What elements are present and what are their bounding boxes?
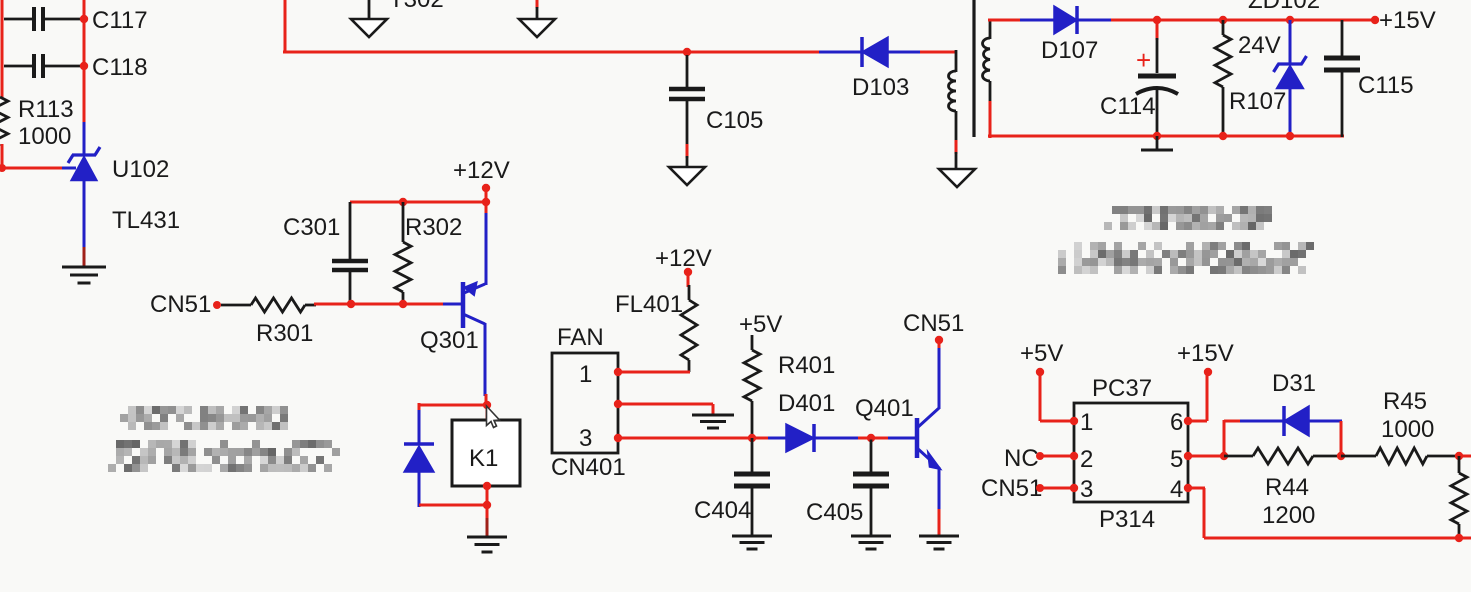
wire U102 anode down: [83, 180, 86, 266]
svg-text:24V: 24V: [1238, 32, 1281, 59]
wire secondary bottom rail: [988, 135, 1344, 138]
label CN51 left: [150, 291, 211, 318]
capacitor C117: [4, 7, 82, 31]
ground C405 earth: [851, 536, 891, 549]
label C114: [1100, 93, 1156, 120]
node D401 left junction: [748, 434, 756, 442]
svg-text:C114: C114: [1100, 93, 1156, 120]
node C114 top: [1153, 16, 1161, 24]
wire C117-C118 vertical: [83, 0, 86, 155]
label C115: [1358, 72, 1414, 99]
node fan pin1: [614, 368, 622, 376]
watermark left line2: [108, 440, 340, 472]
resistor R302: [395, 202, 411, 304]
svg-text:NC: NC: [1004, 445, 1039, 472]
svg-text:ZD102: ZD102: [1248, 0, 1320, 14]
label +12V fan: [655, 245, 712, 272]
label T302: [389, 0, 444, 13]
transistor Q401 NPN: [917, 408, 940, 469]
svg-text:C118: C118: [92, 54, 148, 81]
transformer core: [972, 0, 975, 137]
svg-text:R45: R45: [1383, 388, 1427, 415]
label +12V: [453, 157, 510, 184]
op-amp U102 TL431 shunt regulator: [68, 147, 100, 181]
label TL431: [112, 207, 180, 234]
ground transformer chassis: [939, 169, 975, 187]
label R44 value: [1262, 502, 1315, 529]
label K1: [469, 445, 498, 472]
transformer left winding: [949, 71, 956, 111]
label D107: [1041, 37, 1098, 64]
node +12V tee: [482, 198, 490, 206]
node R107 bottom: [1219, 132, 1227, 140]
diode D401: [752, 424, 872, 452]
wire K1 diode bottom: [419, 504, 487, 507]
svg-text:CN51: CN51: [150, 291, 211, 318]
svg-text:+15V: +15V: [1379, 7, 1436, 34]
node fan pin3: [614, 434, 622, 442]
capacitor C405: [853, 438, 889, 536]
wire K1 ground lead: [486, 518, 489, 537]
node R107 top: [1219, 16, 1227, 24]
label R45 value: [1381, 416, 1434, 443]
ground fan earth: [692, 415, 734, 428]
wire fan pin3: [618, 437, 752, 440]
svg-text:CN401: CN401: [551, 454, 626, 481]
node C105 junction: [683, 48, 691, 56]
wire fan pin2: [618, 404, 713, 415]
node bottom rail junction: [1455, 534, 1463, 542]
watermark right line2: [1058, 242, 1314, 274]
resistor R45: [1341, 448, 1457, 464]
wire K1 diode top: [419, 403, 487, 412]
resistor R44: [1224, 448, 1341, 464]
wire Q301 emitter up: [485, 213, 488, 285]
svg-text:+5V: +5V: [739, 311, 782, 338]
capacitor C115: [1324, 20, 1360, 137]
wire CN51 to pin3: [1040, 487, 1074, 490]
svg-text:P314: P314: [1099, 506, 1155, 533]
node pc37 pin3: [1070, 484, 1078, 492]
svg-text:1: 1: [1080, 409, 1093, 436]
node K1 bottom junction: [483, 501, 491, 509]
label R45: [1383, 388, 1427, 415]
wire Q401 collector: [938, 340, 941, 409]
wire D31 left riser: [1224, 420, 1242, 456]
wire left edge vertical: [1, 0, 4, 168]
node NC terminal: [1036, 452, 1044, 460]
wire top rail right: [1111, 19, 1375, 22]
transformer right winding lead bottom: [989, 81, 992, 138]
label Q401: [855, 395, 914, 422]
label U102: [112, 156, 169, 183]
resistor R401: [744, 335, 760, 438]
svg-text:R107: R107: [1229, 88, 1286, 115]
node K1 bottom pin: [483, 482, 491, 490]
resistor R107: [1215, 20, 1231, 136]
wire secondary top: [988, 19, 1022, 22]
wire Q401 emitter: [938, 467, 941, 536]
svg-text:C105: C105: [706, 107, 763, 134]
ground chassis 1: [351, 0, 387, 37]
svg-text:D103: D103: [852, 74, 909, 101]
wire main horizontal rail: [283, 51, 819, 54]
svg-text:FAN: FAN: [557, 324, 604, 351]
connector CN401 box: [552, 353, 618, 453]
svg-text:R401: R401: [778, 352, 835, 379]
svg-text:6: 6: [1170, 409, 1183, 436]
label C105: [706, 107, 763, 134]
node C301 bottom: [347, 300, 355, 308]
label CN51 pc37: [981, 475, 1042, 502]
label pin2: [1080, 446, 1093, 473]
zener ZD102: [1274, 20, 1307, 136]
label pin6: [1170, 409, 1183, 436]
node CN51 pc37 terminal: [1036, 484, 1044, 492]
node pc37 pin6: [1184, 417, 1192, 425]
label Q301: [420, 327, 479, 354]
svg-text:R44: R44: [1265, 474, 1309, 501]
label C404: [694, 497, 751, 524]
svg-text:D401: D401: [778, 390, 835, 417]
wire C405 to Q401: [869, 437, 915, 440]
wire fan pin1: [618, 371, 690, 374]
svg-text:R302: R302: [405, 214, 462, 241]
svg-text:D31: D31: [1272, 370, 1316, 397]
svg-text:1000: 1000: [1381, 416, 1434, 443]
node R302 bottom: [399, 300, 407, 308]
node K1 top junction: [483, 401, 491, 409]
svg-text:+: +: [1136, 45, 1151, 75]
node C117 junction: [80, 15, 88, 23]
transformer T primary lead: [955, 50, 958, 72]
label CN401: [551, 454, 626, 481]
wire NC to pin2: [1040, 455, 1074, 458]
ground Q401 earth: [919, 536, 959, 549]
svg-text:C117: C117: [92, 7, 148, 34]
label ZD102: [1248, 0, 1320, 14]
capacitor C114 electrolytic: [1136, 20, 1178, 136]
node +5V pc37 terminal: [1036, 368, 1044, 376]
svg-text:2: 2: [1080, 446, 1093, 473]
label R113 value: [18, 96, 74, 150]
capacitor C118: [4, 54, 82, 78]
label pin5: [1170, 446, 1183, 473]
svg-text:C405: C405: [806, 499, 863, 526]
cursor mouse pointer: [487, 406, 500, 428]
op-amp PC37 optocoupler box: [1074, 403, 1188, 502]
relay K1 box: [452, 420, 520, 486]
node C118 junction: [80, 62, 88, 70]
label PC37: [1092, 375, 1152, 402]
svg-text:PC37: PC37: [1092, 375, 1152, 402]
label R401: [778, 352, 835, 379]
node pc37 pin2: [1070, 452, 1078, 460]
label R301: [256, 320, 313, 347]
node +15V pc37 terminal: [1204, 368, 1212, 376]
svg-text:C301: C301: [283, 214, 340, 241]
watermark left line1: [120, 406, 288, 430]
wire +12V horizontal: [350, 201, 486, 204]
transformer left winding lead: [955, 111, 958, 169]
label D31: [1272, 370, 1316, 397]
diode D31: [1240, 406, 1342, 436]
label C114 plus: [1136, 45, 1151, 75]
wire R45 to edge: [1459, 455, 1471, 458]
ground chassis 2: [519, 0, 555, 37]
svg-text:Q301: Q301: [420, 327, 479, 354]
svg-text:+12V: +12V: [655, 245, 712, 272]
node C114 bottom: [1153, 132, 1161, 140]
svg-text:Q401: Q401: [855, 395, 914, 422]
svg-text:C115: C115: [1358, 72, 1414, 99]
node fan pin2: [614, 400, 622, 408]
watermark right line1: [1104, 206, 1272, 230]
node +12V fan terminal: [684, 268, 692, 276]
node pc37 pin4: [1184, 484, 1192, 492]
label +15V pc37: [1177, 340, 1234, 367]
svg-text:+15V: +15V: [1177, 340, 1234, 367]
svg-text:1200: 1200: [1262, 502, 1315, 529]
label C117: [92, 7, 148, 34]
wire pin4 bottom rail: [1188, 488, 1471, 538]
label C118: [92, 54, 148, 81]
wire K1 bottom lead: [486, 486, 489, 520]
wire K1 top lead: [486, 405, 489, 420]
node R44 left junction: [1220, 452, 1228, 460]
wire R301 to base: [314, 303, 461, 306]
resistor FL401: [681, 272, 697, 372]
svg-text:U102: U102: [112, 156, 169, 183]
diode D103: [819, 37, 922, 67]
svg-text:C404: C404: [694, 497, 751, 524]
node +12V terminal: [482, 184, 490, 192]
label FL401: [615, 291, 683, 318]
label FAN: [557, 324, 604, 351]
label +15V: [1379, 7, 1436, 34]
transistor Q301 PNP: [463, 282, 485, 328]
node CN51 left terminal: [213, 301, 221, 309]
label +5V pc37: [1020, 340, 1063, 367]
wire Q301 collector down: [485, 323, 486, 405]
label C301: [283, 214, 340, 241]
wire +5V to pin1: [1040, 372, 1074, 421]
node ZD102 bottom: [1286, 132, 1294, 140]
node CN51 q401 terminal: [935, 336, 943, 344]
svg-text:R301: R301: [256, 320, 313, 347]
label R44: [1265, 474, 1309, 501]
wire D31 right riser: [1340, 421, 1343, 456]
node pc37 pin5: [1184, 452, 1192, 460]
svg-text:1: 1: [579, 361, 592, 388]
ground C114 stub: [1141, 136, 1173, 150]
svg-text:TL431: TL431: [112, 207, 180, 234]
node +15V terminal: [1371, 16, 1379, 24]
node R45 right junction: [1455, 452, 1463, 460]
transformer right winding lead top: [989, 19, 992, 39]
wire +12V down: [485, 188, 488, 215]
diode D107: [1020, 6, 1113, 34]
svg-text:+12V: +12V: [453, 157, 510, 184]
ground C404 earth: [732, 536, 772, 549]
label NC: [1004, 445, 1039, 472]
resistor R301: [221, 298, 316, 312]
node ZD102 top: [1286, 16, 1294, 24]
node R302 top: [399, 198, 407, 206]
label D401: [778, 390, 835, 417]
ground C105 chassis: [669, 167, 705, 185]
node C405 junction: [867, 434, 875, 442]
svg-text:CN51: CN51: [903, 310, 964, 337]
svg-text:1000: 1000: [18, 123, 71, 150]
svg-text:K1: K1: [469, 445, 498, 472]
label pin4: [1170, 476, 1183, 503]
wire pin5 to junction: [1188, 455, 1224, 458]
wire left horizontal to U102: [0, 167, 76, 170]
svg-text:T302: T302: [389, 0, 444, 13]
label 24V: [1238, 32, 1281, 59]
svg-text:CN51: CN51: [981, 475, 1042, 502]
label R107: [1229, 88, 1286, 115]
svg-text:5: 5: [1170, 446, 1183, 473]
label +5V r401: [739, 311, 782, 338]
svg-text:4: 4: [1170, 476, 1183, 503]
svg-text:3: 3: [1080, 476, 1093, 503]
node left corner junction: [0, 164, 6, 172]
capacitor C301: [332, 202, 368, 304]
label pin1 fan: [579, 361, 592, 388]
transformer right winding: [983, 38, 991, 81]
svg-text:FL401: FL401: [615, 291, 683, 318]
capacitor C105: [669, 55, 705, 168]
svg-text:D107: D107: [1041, 37, 1098, 64]
ground K1 earth: [467, 537, 507, 552]
capacitor C404: [734, 438, 770, 536]
diode K1 flyback: [404, 410, 434, 507]
wire T302 riser: [284, 0, 287, 53]
label P314: [1099, 506, 1155, 533]
label pin3: [1080, 476, 1093, 503]
label R302: [405, 214, 462, 241]
ground U102 earth: [62, 267, 106, 283]
node pc37 pin1: [1070, 417, 1078, 425]
label CN51 q401: [903, 310, 964, 337]
svg-text:R113: R113: [18, 96, 74, 123]
svg-text:+5V: +5V: [1020, 340, 1063, 367]
resistor R46 load: [1451, 456, 1467, 538]
svg-text:3: 3: [579, 425, 592, 452]
label pin1: [1080, 409, 1093, 436]
label pin3 fan: [579, 425, 592, 452]
label D103: [852, 74, 909, 101]
resistor R113: [0, 97, 8, 146]
node R44 right junction: [1337, 452, 1345, 460]
label C405: [806, 499, 863, 526]
wire D103 to transformer: [920, 51, 957, 54]
wire pin6 to +15V: [1188, 372, 1207, 421]
